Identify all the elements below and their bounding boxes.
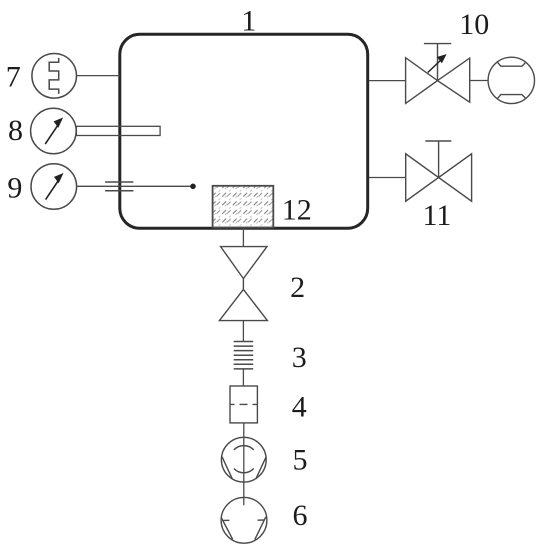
svg-text:5: 5 — [293, 443, 308, 476]
pipe bellows to trap 4 — [242, 369, 244, 386]
trap 4 — [230, 386, 257, 423]
getter block 12 (hatched) — [213, 186, 274, 228]
svg-text:11: 11 — [423, 199, 452, 232]
feedthrough ticks — [105, 182, 133, 191]
svg-text:8: 8 — [8, 114, 23, 147]
svg-text:1: 1 — [241, 5, 256, 38]
gauge 8 — [31, 108, 77, 154]
wire gauge9 probe into chamber — [77, 185, 194, 187]
svg-text:6: 6 — [293, 499, 308, 532]
chamber 1 — [120, 34, 368, 228]
svg-text:10: 10 — [459, 8, 489, 41]
svg-text:9: 9 — [7, 171, 22, 204]
gauge 7 — [32, 54, 77, 99]
roots pump (right) — [488, 57, 534, 103]
wire valve10 to pump — [470, 80, 489, 82]
svg-text:3: 3 — [292, 341, 307, 374]
svg-text:7: 7 — [6, 60, 21, 93]
pipe trap4 through pump 5 into pump 6 — [243, 423, 245, 505]
valve 10 — [406, 44, 470, 104]
valve 11 — [406, 141, 472, 201]
wire chamber to valve 11 — [369, 177, 406, 179]
probe tip dot — [190, 184, 196, 190]
gauge 9 — [31, 164, 77, 210]
pump 5 — [221, 437, 266, 482]
valve 2 — [219, 247, 267, 321]
pipe chamber to valve 2 — [242, 229, 244, 247]
svg-text:4: 4 — [292, 390, 307, 423]
pump 6 — [221, 497, 267, 543]
pipe valve2 to bellows — [242, 321, 244, 342]
tube from gauge 8 into chamber — [76, 126, 160, 135]
wire chamber to valve 10 — [369, 80, 406, 82]
svg-text:2: 2 — [290, 271, 305, 304]
svg-text:12: 12 — [282, 194, 312, 227]
wire gauge7 to chamber — [76, 75, 119, 77]
adjustment arrow on valve 10 — [428, 54, 447, 72]
bellows 3 — [234, 342, 254, 369]
